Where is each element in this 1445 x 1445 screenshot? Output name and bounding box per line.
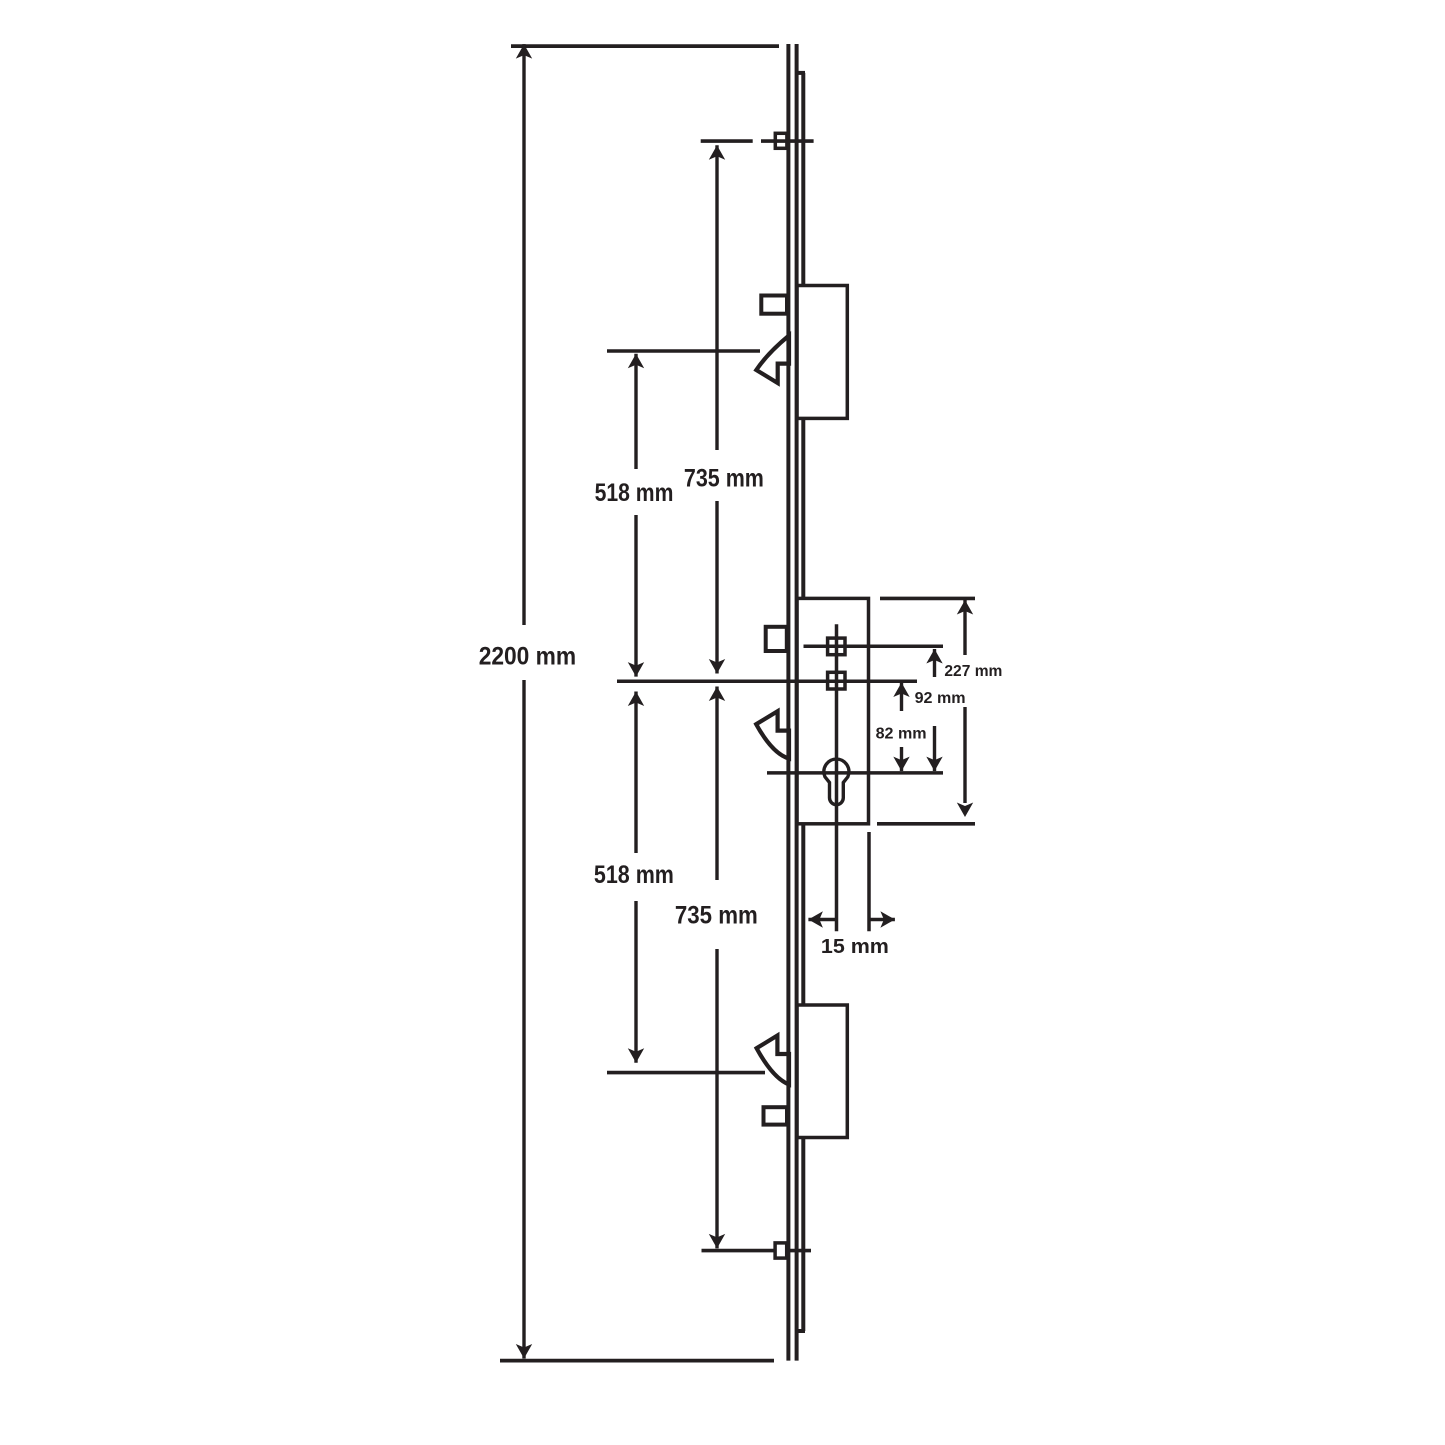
cylinder centre line (82-92 datum) xyxy=(767,771,943,775)
top extension line (2200 top) xyxy=(500,46,779,1361)
upper hook bolt xyxy=(756,336,789,384)
518 lower bottom arrow xyxy=(628,1048,644,1063)
735 lower bottom arrow xyxy=(709,1234,725,1249)
bottom extension line (2200 bottom) xyxy=(500,1359,774,1363)
92 bottom arrow xyxy=(926,757,942,772)
top cam reference line (735 upper datum) xyxy=(607,141,975,1251)
channel bottom jog xyxy=(797,1329,805,1333)
svg-text:518 mm: 518 mm xyxy=(594,861,674,889)
central gearbox case xyxy=(797,598,869,823)
svg-text:15 mm: 15 mm xyxy=(821,936,889,958)
channel top jog xyxy=(797,71,805,75)
2200 bottom arrow xyxy=(516,1344,532,1359)
lower hook bolt xyxy=(757,1036,789,1085)
2200 top arrow xyxy=(516,44,532,59)
2200mm dimension line xyxy=(524,44,965,1358)
15 right arrow xyxy=(880,911,895,927)
spindle line 2 / central reference (518-735 datum) xyxy=(617,679,917,683)
518 lower top arrow xyxy=(628,692,644,707)
735mm lower dimension line xyxy=(715,687,718,881)
lower hook lock box xyxy=(797,1005,847,1138)
735 upper bottom arrow xyxy=(709,659,725,674)
upper roller bolt xyxy=(761,296,787,314)
735 upper top arrow xyxy=(709,145,725,160)
518 upper bottom arrow xyxy=(628,662,644,677)
92mm dimension line xyxy=(933,649,936,677)
faceplate front line xyxy=(786,44,790,1361)
svg-text:2200 mm: 2200 mm xyxy=(479,642,577,670)
spindle square 1 xyxy=(828,638,845,655)
518mm upper dimension line xyxy=(634,354,637,469)
central hook bolt xyxy=(756,711,789,758)
svg-text:518 mm: 518 mm xyxy=(595,479,674,507)
735mm upper dimension line xyxy=(715,145,718,450)
upper hook reference line (518 upper datum) xyxy=(607,349,760,353)
227mm dimension line xyxy=(963,600,966,655)
euro cylinder profile xyxy=(824,759,849,805)
svg-text:82 mm: 82 mm xyxy=(876,725,927,742)
bottom cam reference line (735 lower datum) xyxy=(702,1249,812,1253)
spindle axis vertical line xyxy=(835,624,839,931)
82 top arrow xyxy=(893,683,909,698)
upper hook lock box xyxy=(797,286,847,419)
svg-text:92 mm: 92 mm xyxy=(915,690,966,707)
518mm lower dimension line xyxy=(634,692,637,854)
227 bottom arrow xyxy=(957,803,973,818)
svg-text:227 mm: 227 mm xyxy=(944,663,1002,680)
82mm dimension line xyxy=(900,683,903,712)
faceplate back channel line xyxy=(797,73,805,1331)
svg-text:735 mm: 735 mm xyxy=(684,465,764,493)
arrowheads xyxy=(516,44,973,1358)
gearbox bottom extension line (227 datum) xyxy=(877,822,975,826)
svg-text:735 mm: 735 mm xyxy=(675,902,758,930)
central latch bolt xyxy=(766,627,787,651)
518 upper top arrow xyxy=(628,354,644,369)
82 bottom arrow xyxy=(893,757,909,772)
lower hook reference line (518 lower datum) xyxy=(607,1071,765,1075)
spindle line 1 (92 datum) xyxy=(617,624,943,931)
15mm dimension arrow lines xyxy=(808,918,836,921)
faceplate back line xyxy=(795,44,799,1361)
15 left arrow xyxy=(808,911,823,927)
lower roller bolt xyxy=(764,1107,788,1124)
92 top arrow xyxy=(926,649,942,664)
15mm right extension line xyxy=(867,832,871,931)
top roller cam square xyxy=(775,133,787,148)
gearbox top extension line (227 datum) xyxy=(880,597,975,601)
spindle square 2 xyxy=(828,672,845,689)
bottom roller cam square xyxy=(775,1243,787,1258)
227 top arrow xyxy=(957,600,973,615)
735 lower top arrow xyxy=(709,687,725,702)
